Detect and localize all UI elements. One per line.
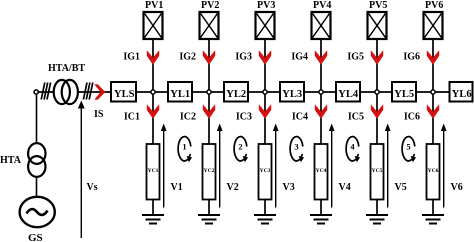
svg-text:1: 1 [182,141,186,151]
svg-text:PV5: PV5 [369,0,387,11]
node junction 2 [207,90,211,94]
svg-text:IC6: IC6 [404,112,420,123]
wire bus to YC2 [208,92,210,144]
current arrow IC4 [315,104,327,118]
svg-text:YL3: YL3 [282,89,302,100]
svg-text:2: 2 [238,141,242,151]
svg-text:IG4: IG4 [291,52,308,63]
voltage arrow V4 [331,129,333,208]
svg-text:IG1: IG1 [123,52,140,63]
svg-text:YC4: YC4 [316,168,327,174]
wire bus to YC6 [432,92,434,144]
PV module PV1 [144,12,163,39]
current arrow IC6 [427,104,439,118]
svg-text:YC3: YC3 [260,168,271,174]
wire YC4 to ground [320,200,322,216]
svg-text:YLS: YLS [114,89,135,100]
current arrow IG1 [147,50,159,64]
ground 3 [254,215,276,224]
current arrow IC5 [371,104,383,118]
wire bus to YC4 [320,92,322,144]
voltage arrow Vs [80,107,82,238]
admittance box YC5 [371,144,384,200]
wire PV3 to bus [264,39,266,92]
voltage arrow V3 [275,129,277,208]
wire PV1 to bus [152,39,154,92]
node junction 1 [151,90,155,94]
node junction 4 [319,90,323,94]
svg-text:PV3: PV3 [257,0,275,11]
svg-text:YL1: YL1 [170,89,190,100]
admittance box YC6 [427,144,440,200]
svg-text:YL4: YL4 [338,89,359,100]
svg-text:YC6: YC6 [428,168,439,174]
svg-text:V3: V3 [283,182,295,193]
current arrow IG2 [203,50,215,64]
wire YC2 to ground [208,200,210,216]
svg-text:4: 4 [350,141,355,151]
current arrow IS [94,84,105,100]
admittance box YC1 [147,144,160,200]
line box YL4 [336,82,360,102]
svg-text:PV1: PV1 [145,0,163,11]
svg-text:V6: V6 [451,182,463,193]
svg-text:5: 5 [406,141,410,151]
node junction 6 [431,90,435,94]
voltage arrow V6 [443,129,445,208]
svg-text:IC3: IC3 [236,112,252,123]
wire PV4 to bus [320,39,322,92]
wire bus to YC5 [376,92,378,144]
ground 2 [198,215,220,224]
svg-text:PV2: PV2 [201,0,219,11]
transformer T2 HTA [28,143,45,164]
PV module PV2 [200,12,219,39]
svg-text:IC5: IC5 [348,112,364,123]
ground 4 [310,215,332,224]
PV module PV4 [312,12,331,39]
svg-text:YC1: YC1 [148,168,159,174]
wire YC6 to ground [432,200,434,216]
svg-text:V5: V5 [395,182,407,193]
loop current 3 [290,137,303,161]
current arrow IC1 [147,104,159,118]
svg-text:GS: GS [28,232,43,242]
svg-text:IG3: IG3 [235,52,252,63]
load box YLS [111,82,136,102]
three-phase tick marks (right of HTA/BT) [83,83,87,100]
loop current 5 [402,137,415,161]
svg-text:YC2: YC2 [204,168,215,174]
wire bus to YC3 [264,92,266,144]
voltage arrow V5 [387,129,389,208]
line box YL5 [392,82,416,102]
node junction 3 [263,90,267,94]
svg-text:YL5: YL5 [394,89,414,100]
svg-text:IC1: IC1 [124,112,140,123]
svg-text:IC4: IC4 [292,112,308,123]
PV module PV5 [368,12,387,39]
wire YC5 to ground [376,200,378,216]
svg-text:V1: V1 [171,182,183,193]
node junction 5 [375,90,379,94]
current arrow IG3 [259,50,271,64]
ground 5 [366,215,388,224]
svg-text:Vs: Vs [87,182,98,193]
PV module PV3 [256,12,275,39]
PV module PV6 [424,12,443,39]
line box YL3 [280,82,304,102]
current arrow IC3 [259,104,271,118]
svg-text:V2: V2 [227,182,239,193]
ground 1 [142,215,164,224]
svg-text:YL2: YL2 [226,89,246,100]
transformer T1 HTA/BT [54,80,70,104]
loop current 2 [234,137,247,161]
line box YL1 [168,82,192,102]
current arrow IG4 [315,50,327,64]
svg-text:IG5: IG5 [347,52,364,63]
voltage arrow V2 [219,129,221,208]
three-phase tick marks (left of HTA/BT) [41,83,45,100]
wire PV2 to bus [208,39,210,92]
admittance box YC2 [203,144,216,200]
svg-text:IG6: IG6 [403,52,420,63]
generator GS [20,197,55,227]
current arrow IG6 [427,50,439,64]
ground 6 [422,215,444,224]
line box YL6 [450,82,473,102]
voltage arrow V1 [163,129,165,208]
wire PV6 to bus [432,39,434,92]
svg-text:YL6: YL6 [452,89,472,100]
svg-text:3: 3 [294,141,298,151]
svg-text:YC5: YC5 [372,168,383,174]
line box YL2 [224,82,248,102]
svg-text:V4: V4 [339,182,351,193]
svg-text:IC2: IC2 [180,112,196,123]
svg-text:HTA: HTA [0,155,22,166]
admittance box YC3 [259,144,272,200]
loop current 1 [178,137,191,161]
wire HTA to GS [36,177,38,198]
loop current 4 [346,137,359,161]
wire bus to YC1 [152,92,154,144]
node left bus node [34,90,38,94]
svg-text:HTA/BT: HTA/BT [48,63,85,74]
svg-text:IS: IS [94,109,104,120]
current arrow IG5 [371,50,383,64]
wire main bus [38,91,472,93]
svg-text:PV4: PV4 [313,0,331,11]
admittance box YC4 [315,144,328,200]
wire left vertical drop to HTA [36,94,38,144]
current arrow IC2 [203,104,215,118]
wire YC3 to ground [264,200,266,216]
svg-text:IG2: IG2 [179,52,196,63]
svg-text:PV6: PV6 [425,0,443,11]
wire PV5 to bus [376,39,378,92]
wire YC1 to ground [152,200,154,216]
